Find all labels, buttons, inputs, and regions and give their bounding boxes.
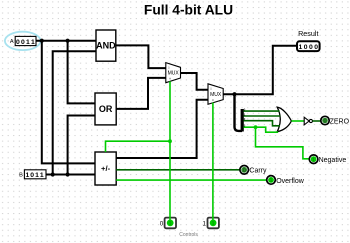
svg-text:0: 0	[314, 44, 318, 51]
wire negative from splitter tap	[256, 127, 310, 159]
wire control 2 (select MUX2)	[212, 103, 214, 223]
splitter leg bit 2	[244, 115, 281, 117]
splitter spine	[241, 109, 244, 132]
mux MUX1	[166, 63, 181, 83]
wire adder carry output to Carry pin	[116, 169, 240, 171]
not gate G2	[304, 117, 312, 125]
splitter leg bit 0 (msb, value 1)	[244, 127, 279, 132]
wire AND output to MUX1 input 0	[116, 45, 166, 68]
node junction A1	[40, 39, 44, 43]
wire OR gate output	[291, 120, 304, 122]
svg-text:0: 0	[243, 168, 246, 174]
output pin Negative	[309, 155, 318, 164]
input pin control 0 state disc	[167, 220, 174, 228]
svg-text:1: 1	[212, 221, 215, 227]
input pin A value box 0011	[15, 36, 36, 45]
svg-text:+/-: +/-	[101, 164, 111, 173]
svg-text:0: 0	[16, 39, 20, 46]
wire OR output to MUX1 input 1	[116, 78, 166, 109]
wire MUX2 output to result riser	[223, 46, 297, 94]
wire adder sum output to MUX2 input 1	[116, 100, 208, 158]
svg-text:ZERO: ZERO	[330, 118, 350, 125]
wire B up to OR input 2	[68, 116, 95, 175]
wire A down to adder	[42, 41, 95, 164]
wire MUX1 output to MUX2 input 0	[181, 73, 209, 90]
wire NOT output to ZERO pin	[313, 120, 321, 122]
svg-text:Carry: Carry	[249, 168, 267, 175]
wire control 1 (select MUX1 + subtract)	[169, 81, 171, 223]
svg-text:1: 1	[26, 172, 30, 179]
output pin ZERO	[321, 116, 329, 124]
svg-text:0: 0	[210, 87, 212, 91]
svg-text:Negative: Negative	[319, 157, 347, 164]
svg-text:AND: AND	[96, 41, 116, 51]
svg-text:Result: Result	[298, 29, 318, 38]
svg-text:1: 1	[312, 157, 315, 163]
OR subcircuit box U2	[95, 93, 116, 125]
svg-text:Overflow: Overflow	[276, 178, 305, 185]
svg-text:1: 1	[203, 220, 207, 227]
svg-text:0: 0	[30, 172, 34, 179]
svg-text:0: 0	[168, 66, 170, 70]
svg-text:Controls: Controls	[179, 232, 198, 238]
svg-text:Full 4-bit ALU: Full 4-bit ALU	[144, 2, 233, 17]
input pin control 1 state disc	[210, 220, 217, 228]
node junction negative tap	[254, 125, 258, 129]
svg-text:0: 0	[160, 220, 164, 227]
wire B bus horizontal to adder	[46, 174, 95, 176]
svg-text:0: 0	[309, 44, 313, 51]
svg-text:1: 1	[26, 39, 30, 46]
svg-text:0: 0	[304, 44, 308, 51]
wire adder overflow output to Overflow pin	[116, 179, 267, 181]
svg-text:1: 1	[40, 172, 44, 179]
node junction B1	[51, 172, 55, 176]
svg-text:1: 1	[270, 178, 273, 184]
or gate G1 (4-input)	[277, 107, 291, 131]
svg-text:1: 1	[299, 44, 303, 51]
splitter bit labels	[244, 108, 246, 128]
adder/subtractor box U3 +/-	[95, 152, 116, 185]
wire A bus horizontal to AND	[36, 40, 96, 42]
svg-text:0: 0	[324, 119, 327, 125]
output pin Carry	[240, 166, 249, 175]
splitter leg bit 1	[244, 121, 281, 126]
output pin Result value box 1000	[297, 41, 320, 51]
output pin Overflow	[267, 176, 276, 185]
node junction control1 to adder	[168, 139, 172, 143]
input pin B value box 1011	[24, 170, 46, 179]
wire control1 branch to adder subtract input	[106, 141, 171, 152]
wire bus down from junction to splitter	[235, 94, 243, 131]
splitter leg bit 3	[244, 110, 280, 112]
node junction A2	[66, 39, 70, 43]
wire B up to AND input 2	[53, 51, 96, 174]
svg-text:OR: OR	[99, 104, 113, 114]
svg-text:MUX: MUX	[168, 71, 180, 77]
mux MUX2	[208, 84, 223, 105]
svg-text:1: 1	[31, 39, 35, 46]
selection halo around pin A	[5, 32, 41, 50]
node junction B2	[66, 172, 70, 176]
wire A down to OR input 1	[68, 41, 95, 104]
svg-text:A: A	[10, 39, 14, 45]
svg-text:B: B	[19, 173, 23, 179]
svg-text:0: 0	[21, 39, 25, 46]
AND subcircuit box U1	[96, 30, 116, 61]
svg-text:1: 1	[169, 221, 172, 227]
node junction on result bus	[232, 92, 236, 96]
svg-text:MUX: MUX	[210, 92, 222, 98]
svg-text:1: 1	[35, 172, 39, 179]
